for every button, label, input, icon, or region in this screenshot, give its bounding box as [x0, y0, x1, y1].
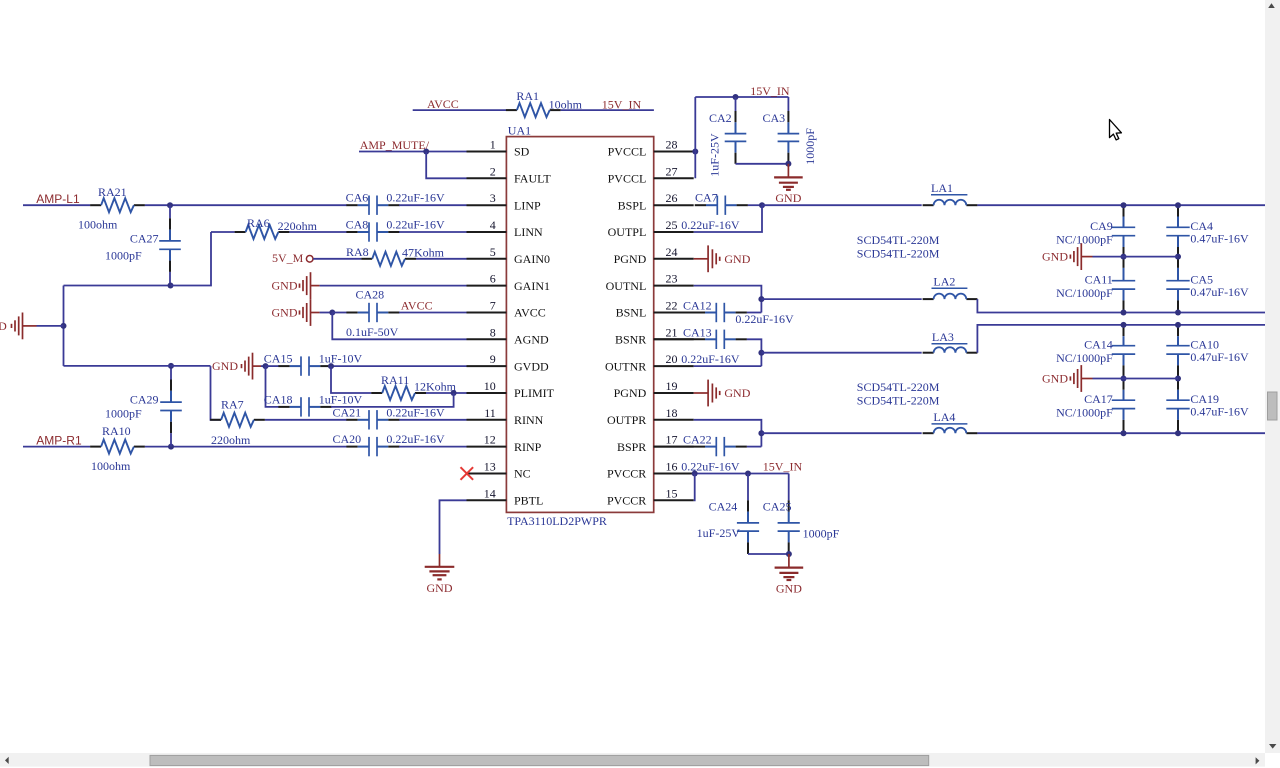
svg-text:0.22uF-16V: 0.22uF-16V — [681, 218, 740, 232]
pin 20 stub — [654, 365, 694, 367]
capacitor CA18 — [278, 406, 289, 408]
no-connect marker pin13 — [461, 467, 474, 480]
svg-text:PBTL: PBTL — [514, 494, 543, 508]
ground GAIN1 — [310, 272, 312, 299]
wire pin15 up — [694, 474, 695, 501]
wire AMP_MUTE to pin1 — [359, 151, 467, 153]
scrollbar up arrow — [1268, 3, 1275, 8]
svg-text:UA1: UA1 — [508, 123, 531, 137]
svg-text:CA8: CA8 — [346, 218, 369, 232]
wire junction L1 down to CA27 — [169, 205, 171, 218]
wire AVCC to RA1 — [413, 109, 506, 111]
svg-text:CA20: CA20 — [333, 432, 362, 446]
svg-text:0.47uF-16V: 0.47uF-16V — [1190, 231, 1249, 245]
junction node R1 — [168, 444, 174, 450]
scrollbar right arrow2 — [1256, 757, 1260, 764]
svg-text:CA22: CA22 — [683, 433, 712, 447]
junction BSNR — [758, 350, 764, 356]
svg-text:13: 13 — [484, 460, 496, 474]
svg-text:RA21: RA21 — [98, 185, 127, 199]
svg-text:GND: GND — [724, 252, 750, 266]
junction OUTPL — [759, 202, 765, 208]
svg-text:28: 28 — [666, 138, 678, 152]
svg-text:RINP: RINP — [514, 440, 542, 454]
scrollbar left arrow — [5, 757, 9, 764]
svg-text:GND: GND — [0, 319, 7, 333]
svg-text:1uF-10V: 1uF-10V — [319, 392, 363, 406]
wire CA18 to PLIMIT junction — [331, 393, 454, 407]
wire RA8 to pin5 — [416, 258, 467, 260]
svg-text:OUTNL: OUTNL — [606, 279, 647, 293]
svg-text:PVCCR: PVCCR — [607, 467, 646, 481]
svg-text:TPA3110LD2PWPR: TPA3110LD2PWPR — [507, 514, 607, 528]
svg-text:CA13: CA13 — [683, 325, 712, 339]
ground 15V caps — [787, 164, 789, 178]
capacitor plates x1124 y285 — [1112, 280, 1135, 282]
svg-text:NC: NC — [514, 467, 531, 481]
svg-text:1: 1 — [490, 138, 496, 152]
pin 11 stub — [467, 419, 507, 421]
svg-text:PVCCL: PVCCL — [608, 172, 647, 186]
svg-text:27: 27 — [666, 164, 678, 178]
wire RA21 to CA6 — [145, 204, 347, 206]
svg-text:21: 21 — [666, 325, 678, 339]
svg-text:PVCCL: PVCCL — [608, 145, 647, 159]
svg-text:PGND: PGND — [614, 386, 647, 400]
capacitor plates x1178 y404 — [1166, 399, 1189, 401]
svg-text:SCD54TL-220M: SCD54TL-220M — [857, 233, 940, 247]
svg-text:5V_M: 5V_M — [272, 251, 304, 265]
wire OUTPL up — [694, 205, 762, 232]
svg-text:LINP: LINP — [514, 198, 541, 212]
svg-text:15V_IN: 15V_IN — [763, 460, 803, 474]
svg-text:14: 14 — [484, 486, 496, 500]
svg-text:AMP-L1: AMP-L1 — [36, 192, 80, 206]
gnd rail bank1 — [1081, 256, 1092, 258]
svg-text:GND: GND — [427, 581, 453, 595]
wire CA7 to OUTPL junction — [748, 204, 762, 206]
junction CA29 top — [168, 363, 174, 369]
pin 21 stub — [654, 338, 694, 340]
svg-text:SCD54TL-220M: SCD54TL-220M — [857, 393, 940, 407]
wire pin28-27 vertical — [694, 97, 696, 178]
svg-text:15: 15 — [666, 486, 678, 500]
capacitor plates x1124 y350 — [1112, 345, 1135, 347]
wire mid horizontal rail — [64, 365, 211, 367]
pin 7 stub — [467, 312, 507, 314]
pin 5 stub — [467, 258, 507, 260]
pin 8 stub — [467, 338, 507, 340]
ground GVDD — [252, 353, 254, 380]
junction CA15 left — [263, 363, 269, 369]
wire 5V_M to RA8 — [313, 258, 361, 260]
junction AMP_MUTE — [423, 149, 429, 155]
wire CA28 to pin7 — [399, 312, 466, 314]
svg-text:RA11: RA11 — [381, 373, 409, 387]
junction CA27 bottom — [168, 283, 174, 289]
junction pin16 b — [745, 471, 751, 477]
svg-text:RINN: RINN — [514, 413, 544, 427]
capacitor CA28 — [346, 312, 357, 314]
scrollbar right thumb — [1268, 392, 1278, 420]
junction pin28 — [692, 149, 698, 155]
resistor RA7 — [210, 419, 221, 421]
svg-text:2: 2 — [490, 164, 496, 178]
svg-text:25: 25 — [666, 218, 678, 232]
svg-text:20: 20 — [666, 352, 678, 366]
svg-text:0.22uF-16V: 0.22uF-16V — [386, 218, 445, 232]
ground PVCC caps — [788, 554, 790, 568]
mouse cursor — [1110, 120, 1122, 140]
wire LA4 out — [977, 432, 1265, 434]
wire AMP-R1 — [23, 446, 90, 448]
wire LA2 line — [761, 298, 921, 300]
junction pin16 a — [692, 471, 698, 477]
wire RA10 to CA20 — [145, 446, 347, 448]
wire GND to CA28 — [311, 312, 320, 314]
svg-text:0.47uF-16V: 0.47uF-16V — [1190, 285, 1249, 299]
capacitor CA21 — [346, 419, 357, 421]
svg-text:18: 18 — [666, 406, 678, 420]
svg-text:17: 17 — [666, 433, 678, 447]
svg-text:PLIMIT: PLIMIT — [514, 386, 555, 400]
svg-text:0.22uF-16V: 0.22uF-16V — [735, 312, 794, 326]
svg-text:CA9: CA9 — [1090, 219, 1113, 233]
svg-text:220ohm: 220ohm — [211, 433, 251, 447]
svg-text:RA8: RA8 — [346, 245, 369, 259]
wire LA4 line — [761, 432, 921, 434]
wire pin14 to GND — [440, 500, 467, 554]
capacitor CA24 — [747, 474, 749, 501]
pin 16 stub — [654, 473, 694, 475]
svg-text:19: 19 — [666, 379, 678, 393]
capacitor CA20 — [346, 446, 357, 448]
svg-text:100ohm: 100ohm — [91, 459, 131, 473]
svg-text:LA2: LA2 — [933, 274, 955, 288]
svg-text:CA17: CA17 — [1084, 392, 1113, 406]
svg-text:SCD54TL-220M: SCD54TL-220M — [857, 380, 940, 394]
svg-text:NC/1000pF: NC/1000pF — [1056, 232, 1113, 246]
pin 28 stub — [654, 151, 694, 153]
ground filter bank2 — [1080, 365, 1082, 392]
svg-text:CA28: CA28 — [356, 287, 385, 301]
inductor LA3 — [923, 352, 934, 354]
ground PGND pin19 — [694, 392, 708, 394]
svg-text:CA29: CA29 — [130, 393, 159, 407]
svg-text:GND: GND — [775, 191, 801, 205]
wire OUTNL to junction — [694, 286, 762, 313]
pin 12 stub — [467, 446, 507, 448]
wire OUTPL line — [762, 204, 922, 206]
svg-text:GND: GND — [724, 386, 750, 400]
wire R1 junction up through CA29 — [170, 366, 172, 380]
pin 13 stub — [467, 473, 507, 475]
wire RA1 to 15V_IN — [561, 109, 654, 111]
capacitor CA15 — [278, 365, 289, 367]
svg-text:PVCCR: PVCCR — [607, 494, 646, 508]
capacitor plates x1124 y404 — [1112, 399, 1135, 401]
wire PVCCR row16 — [694, 473, 789, 475]
svg-text:CA24: CA24 — [709, 500, 738, 514]
wire CA2-CA3 bottom — [736, 163, 789, 165]
resistor RA10 — [90, 446, 101, 448]
wire RA6 to CA8 — [289, 231, 347, 233]
junction CA15 right — [328, 363, 334, 369]
wire CA6 to pin3 — [399, 204, 466, 206]
capacitor plates x1178 y232 — [1166, 226, 1189, 228]
svg-text:RA10: RA10 — [102, 424, 131, 438]
svg-text:0.22uF-16V: 0.22uF-16V — [386, 405, 445, 419]
svg-text:SCD54TL-220M: SCD54TL-220M — [857, 246, 940, 260]
svg-text:1000pF: 1000pF — [803, 128, 817, 165]
svg-text:GAIN1: GAIN1 — [514, 279, 550, 293]
pin 17 stub — [654, 446, 694, 448]
capacitor CA3 — [787, 97, 789, 111]
wire LA2 out — [977, 299, 1265, 312]
wire OUTNR — [694, 365, 762, 367]
svg-text:7: 7 — [490, 299, 496, 313]
wire CA20 to pin12 — [399, 446, 466, 448]
pin 27 stub — [654, 177, 694, 179]
svg-text:CA6: CA6 — [346, 191, 369, 205]
junction CA25 gnd — [786, 551, 792, 557]
svg-text:AVCC: AVCC — [401, 299, 433, 313]
pin 2 stub — [467, 177, 507, 179]
pin 22 stub — [654, 312, 694, 314]
ground PBTL — [425, 566, 455, 568]
svg-text:GND: GND — [212, 359, 238, 373]
svg-text:0.47uF-16V: 0.47uF-16V — [1190, 404, 1249, 418]
svg-text:LA1: LA1 — [931, 181, 953, 195]
capacitor CA12 — [654, 312, 705, 314]
junction CA3 gnd — [785, 161, 791, 167]
svg-text:OUTNR: OUTNR — [605, 359, 646, 373]
junction left GND — [61, 323, 67, 329]
svg-text:CA15: CA15 — [264, 352, 293, 366]
capacitor plates x1178 y285 — [1166, 280, 1189, 282]
svg-text:NC/1000pF: NC/1000pF — [1056, 351, 1113, 365]
wire CA15 to pin9 — [331, 365, 467, 367]
resistor RA1 — [506, 109, 517, 111]
svg-text:47Kohm: 47Kohm — [402, 246, 445, 260]
capacitor CA25 — [788, 474, 790, 501]
wire CA24 to CA25 bottom — [748, 553, 789, 555]
wire CA8 to pin4 — [399, 231, 466, 233]
wire LA3 line — [761, 352, 921, 354]
svg-text:CA2: CA2 — [709, 111, 732, 125]
wire CA21 to pin11 — [399, 419, 466, 421]
svg-text:0.1uF-50V: 0.1uF-50V — [346, 325, 399, 339]
pin 14 stub — [467, 499, 507, 501]
pin 25 stub — [654, 231, 694, 233]
svg-text:RA7: RA7 — [221, 398, 244, 412]
wire filter column bank1 x1178 — [1177, 205, 1179, 216]
wire GND to CA15 — [253, 365, 262, 367]
scrollbar bottom track — [0, 753, 1265, 767]
svg-text:LA4: LA4 — [933, 410, 955, 424]
svg-text:LA3: LA3 — [932, 330, 954, 344]
junction OUTPR — [758, 430, 764, 436]
svg-text:22: 22 — [666, 299, 678, 313]
capacitor CA7 — [695, 204, 706, 206]
pin 9 stub — [467, 365, 507, 367]
wire RA7 to CA21 — [265, 419, 347, 421]
pin 19 stub — [654, 392, 694, 394]
wire AMP-L1 — [23, 204, 90, 206]
svg-text:BSNR: BSNR — [615, 333, 646, 347]
svg-text:1uF-10V: 1uF-10V — [319, 352, 363, 366]
wire CA27 to left rail — [64, 285, 172, 287]
wire to RA6 — [211, 231, 235, 233]
svg-text:AMP_MUTE/: AMP_MUTE/ — [360, 138, 430, 152]
wire filter column bank2 x1124 — [1123, 325, 1125, 336]
svg-text:23: 23 — [666, 272, 678, 286]
scrollbar right track — [1265, 0, 1280, 753]
wire AMP_MUTE to pin2 — [426, 152, 466, 179]
wire CA13 to junction — [747, 339, 762, 366]
pin 3 stub — [467, 204, 507, 206]
svg-text:3: 3 — [490, 191, 496, 205]
svg-text:NC/1000pF: NC/1000pF — [1056, 405, 1113, 419]
pin 18 stub — [654, 419, 694, 421]
svg-text:CA14: CA14 — [1084, 337, 1113, 351]
svg-text:0.47uF-16V: 0.47uF-16V — [1190, 350, 1249, 364]
svg-text:OUTPR: OUTPR — [607, 413, 646, 427]
ground filter bank1 — [1080, 243, 1082, 270]
junction node L1 — [167, 202, 173, 208]
svg-text:0.22uF-16V: 0.22uF-16V — [681, 460, 740, 474]
svg-text:GND: GND — [1042, 250, 1068, 264]
svg-text:GND: GND — [776, 581, 802, 595]
capacitor CA22 — [654, 446, 705, 448]
pin 4 stub — [467, 231, 507, 233]
svg-text:FAULT: FAULT — [514, 172, 551, 186]
svg-text:CA7: CA7 — [695, 191, 718, 205]
svg-text:CA27: CA27 — [130, 232, 159, 246]
pin 6 stub — [467, 285, 507, 287]
capacitor plates x1178 y350 — [1166, 345, 1189, 347]
ground AVCC cap — [310, 299, 312, 326]
no-connect circle 5V_M — [306, 255, 313, 262]
svg-text:6: 6 — [490, 272, 496, 286]
svg-text:AMP-R1: AMP-R1 — [36, 434, 82, 448]
svg-text:GND: GND — [272, 279, 298, 293]
junction 15V rail CA2 — [733, 94, 739, 100]
svg-text:PGND: PGND — [614, 252, 647, 266]
wire RA11 to pin10 — [426, 392, 467, 394]
svg-text:OUTPL: OUTPL — [608, 225, 647, 239]
svg-text:16: 16 — [666, 460, 678, 474]
capacitor CA27 — [159, 240, 181, 242]
svg-text:1000pF: 1000pF — [105, 407, 142, 421]
wire filter column bank1 x1124 — [1123, 205, 1125, 216]
svg-text:1uF-25V: 1uF-25V — [697, 526, 741, 540]
svg-text:CA12: CA12 — [683, 299, 712, 313]
resistor RA6 — [235, 231, 246, 233]
svg-text:BSPR: BSPR — [617, 440, 646, 454]
svg-text:12: 12 — [484, 433, 496, 447]
svg-text:100ohm: 100ohm — [78, 218, 118, 232]
svg-text:RA1: RA1 — [516, 89, 539, 103]
junction CA28 gnd — [329, 310, 335, 316]
svg-text:4: 4 — [490, 218, 496, 232]
capacitor CA13 — [654, 338, 705, 340]
svg-text:12Kohm: 12Kohm — [414, 380, 457, 394]
gnd rail bank2 — [1081, 378, 1092, 380]
svg-text:CA18: CA18 — [264, 392, 293, 406]
svg-text:0.22uF-16V: 0.22uF-16V — [386, 191, 445, 205]
resistor RA21 — [90, 204, 101, 206]
ground left edge — [22, 313, 24, 340]
scrollbar down arrow — [1269, 744, 1276, 749]
svg-text:0.22uF-16V: 0.22uF-16V — [386, 432, 445, 446]
svg-text:GVDD: GVDD — [514, 359, 549, 373]
wire filter column bank2 x1178 — [1177, 325, 1179, 336]
svg-text:AVCC: AVCC — [514, 306, 546, 320]
svg-text:GAIN0: GAIN0 — [514, 252, 550, 266]
pin 23 stub — [654, 285, 694, 287]
svg-text:LINN: LINN — [514, 225, 543, 239]
svg-text:0.22uF-16V: 0.22uF-16V — [681, 352, 740, 366]
svg-text:11: 11 — [484, 406, 496, 420]
svg-text:9: 9 — [490, 352, 496, 366]
svg-text:15V_IN: 15V_IN — [750, 84, 790, 98]
wire CA15 left down to CA18 — [266, 366, 280, 407]
inductor LA1 — [923, 204, 934, 206]
svg-text:SD: SD — [514, 145, 530, 159]
wire LA3 out — [977, 325, 1265, 353]
IC UA1 body — [506, 137, 653, 513]
svg-text:1000pF: 1000pF — [803, 526, 840, 540]
wire CA15 junction down to RA11 — [331, 366, 371, 393]
inductor LA4 — [923, 432, 934, 434]
svg-text:BSPL: BSPL — [618, 198, 647, 212]
resistor RA11 — [371, 392, 382, 394]
wire left GND lead — [23, 325, 37, 327]
svg-text:10: 10 — [484, 379, 496, 393]
svg-text:AGND: AGND — [514, 333, 549, 347]
pin 24 stub — [654, 258, 694, 260]
capacitor CA2 — [735, 97, 737, 111]
svg-text:NC/1000pF: NC/1000pF — [1056, 286, 1113, 300]
wire AGND branch — [332, 313, 466, 340]
svg-text:AVCC: AVCC — [427, 97, 459, 111]
pin 1 stub — [467, 151, 507, 153]
wire GND to pin6 — [311, 285, 320, 287]
pin 15 stub — [654, 499, 694, 501]
svg-text:24: 24 — [666, 245, 678, 259]
capacitor plates x1124 y232 — [1112, 226, 1135, 228]
svg-text:1000pF: 1000pF — [105, 249, 142, 263]
capacitor CA29 — [160, 401, 182, 403]
capacitor CA6 — [346, 204, 357, 206]
svg-text:26: 26 — [666, 191, 678, 205]
capacitor CA8 — [346, 231, 357, 233]
svg-text:5: 5 — [490, 245, 496, 259]
svg-text:CA3: CA3 — [763, 111, 786, 125]
svg-text:CA11: CA11 — [1085, 272, 1113, 286]
wire down to RA7 — [211, 366, 222, 420]
svg-text:1uF-25V: 1uF-25V — [708, 133, 722, 177]
ground PGND pin24 — [694, 258, 708, 260]
svg-text:GND: GND — [272, 306, 298, 320]
svg-text:RA6: RA6 — [247, 216, 270, 230]
svg-text:CA21: CA21 — [333, 405, 362, 419]
junction PLIMIT — [451, 390, 457, 396]
wire LA1 out — [977, 204, 1265, 206]
resistor RA8 — [361, 258, 372, 260]
pin 10 stub — [467, 392, 507, 394]
